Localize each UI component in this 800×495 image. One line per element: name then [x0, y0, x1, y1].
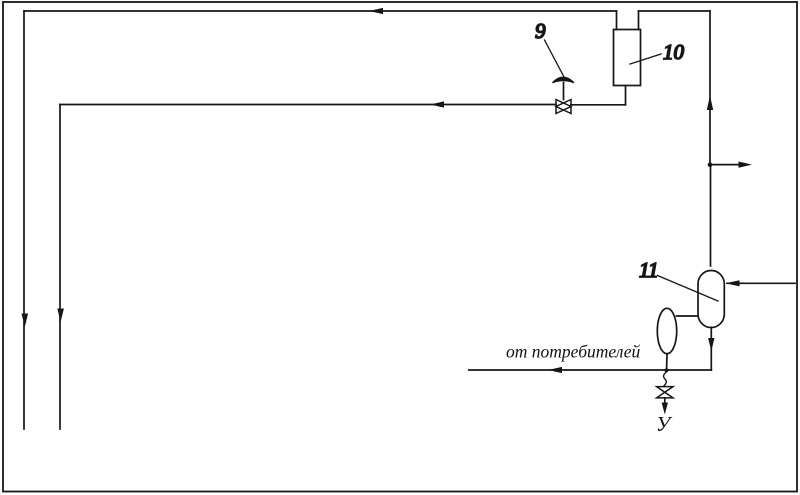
svg-text:11: 11 [639, 258, 658, 282]
wire squiggle to drain valve [664, 372, 667, 385]
valve 9 [553, 77, 575, 113]
arrow flow up on riser [707, 96, 713, 111]
wire riser from vessel 11 [710, 165, 712, 267]
svg-text:У: У [656, 412, 673, 436]
svg-text:от потребителей: от потребителей [506, 342, 641, 362]
arrow into vessel 11 [726, 280, 740, 286]
svg-text:10: 10 [663, 40, 685, 64]
arrow flow down on inner vertical [57, 309, 64, 323]
wire inner loop horizontal y105 [60, 104, 556, 106]
arrow drain down [662, 403, 668, 415]
wire supply to consumers arrow [710, 164, 740, 166]
arrow flow down on outer vertical [22, 314, 29, 328]
label 9 [535, 19, 564, 76]
wire pipe vessel 10 top right [638, 11, 640, 30]
wire tank bottom stem [666, 354, 668, 370]
drain valve [657, 387, 673, 398]
wire drain valve outlet [664, 398, 666, 406]
vessel 11 [698, 271, 724, 328]
vessel 10 [614, 30, 641, 86]
node junction drain tee [665, 368, 669, 372]
wire inlet to vessel 11 [727, 282, 795, 284]
arrow return flow left [548, 367, 562, 373]
label 11 [639, 258, 718, 301]
wire pipe into vessel 10 top left [616, 11, 618, 30]
arrow to consumers [739, 162, 753, 168]
wire vessel 10 bottom drain pipe [625, 86, 627, 105]
arrow flow down from vessel 11 [708, 338, 714, 351]
arrow flow left on top line [369, 8, 383, 14]
expansion tank [657, 308, 676, 353]
wire inner loop horizontal y105 right of valve 9 [571, 104, 626, 106]
wire tank to vessel 11 [677, 315, 699, 317]
wire top line from vessel 10 to right riser [639, 10, 711, 12]
node junction at supply tee [708, 162, 713, 167]
wire top supply line to deaerator [24, 10, 617, 12]
wire return line from consumers [469, 369, 712, 371]
wire left outer vertical [23, 11, 25, 429]
arrow flow left on y105 line [430, 101, 444, 107]
wire vessel 11 bottom outlet [710, 328, 712, 371]
wire inner left vertical [59, 105, 61, 430]
label 10 [630, 40, 685, 64]
wire right riser upper [709, 11, 711, 165]
